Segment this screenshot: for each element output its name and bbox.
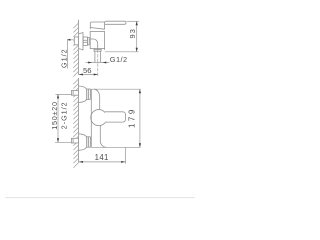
dim 141 arrows [79,161,83,163]
body left edge (bottom view) [90,89,92,147]
inlet 2 tube [90,138,91,140]
inlet 1 tail in wall (bottom view) [71,91,78,96]
wall hatching (side view) [73,23,79,77]
dim 179 line [139,89,141,147]
outlet tube (side view) [94,51,96,62]
svg-text:56: 56 [83,66,91,75]
cartridge cap (side view) [90,22,104,29]
dim 150±20 arrows [57,94,59,98]
inlet 2 tail in wall (bottom view) [71,138,78,143]
inlet 1 flange dome [79,86,87,103]
svg-text:150±20: 150±20 [50,101,59,129]
dim 93 extension lines [127,20,139,22]
dim 150±20 extension lines [56,93,72,95]
collar ring (side view) [87,38,89,45]
dim 150±20 line [57,94,59,142]
wall (side view) [78,20,80,75]
svg-text:2-G1/2: 2-G1/2 [60,101,69,129]
lever handle (side view) [105,21,126,24]
flange cone edges (side view) [79,32,83,50]
G1/2 callout line (outlet) [86,62,110,64]
svg-text:G1/2: G1/2 [59,48,68,68]
lever pill stem (bottom view) [105,112,126,122]
inlet 1 nut [87,89,91,99]
inlet tail in wall (side view) [74,37,78,45]
inlet 2 nut [87,137,91,147]
G1/2 left leader (shelf + arrow) [67,40,73,69]
outlet flange bar (side view) [94,49,101,51]
dim 56 line [79,74,98,76]
svg-text:G1/2: G1/2 [110,55,128,64]
flange face (side view) [82,32,84,50]
dim 141 right extension [125,147,127,163]
dim 179 bottom extension (includes body bottom edge) [91,146,140,148]
wall hatching (bottom view) [73,79,79,168]
dim 179 arrows [139,89,141,93]
inlet 2 flange dome [79,134,87,151]
wall (bottom view) [78,78,80,162]
dim 56 arrows [79,74,83,76]
hub circle (bottom view) [91,110,107,126]
footer rule [5,197,195,199]
G1/2 callout arrows (point at tube) [88,62,92,64]
svg-text:179: 179 [128,107,137,128]
nut between flange and body (side view) [83,37,87,45]
body top neck: descending arc + right edge to hub (bottom view) [94,89,100,110]
dim 179 top extension (includes body top edge) [91,88,140,90]
inlet 1 tube [90,90,91,92]
dim 93 arrows [136,21,138,25]
G1/2 left leader arrow [67,39,71,41]
dim 93 line [136,21,138,52]
body (side view) [90,32,104,49]
dim 141 line [79,161,126,163]
svg-text:93: 93 [128,28,137,39]
outlet center line (side view) [97,50,99,77]
svg-text:141: 141 [95,153,109,162]
spout stem (bottom view) [100,126,106,148]
